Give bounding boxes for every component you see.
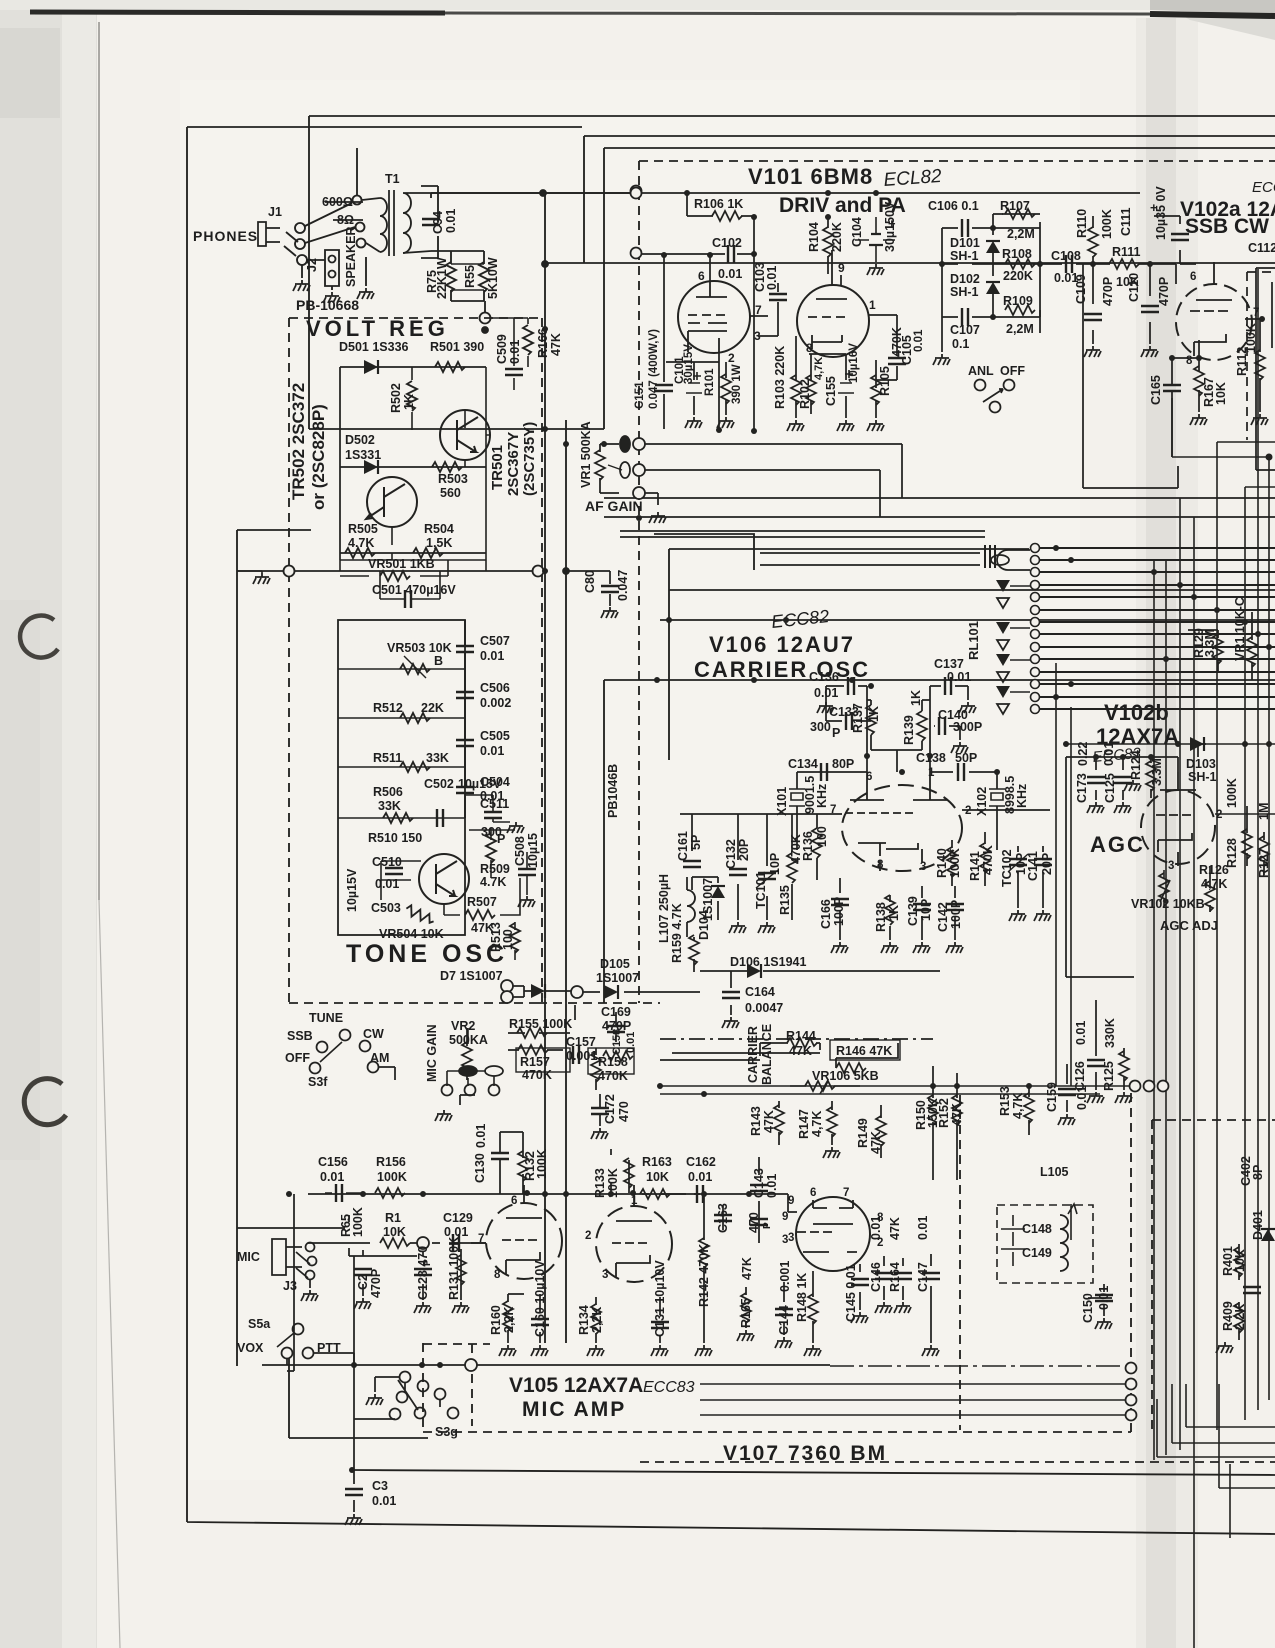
svg-text:470K: 470K [522, 1068, 552, 1082]
svg-text:R141: R141 [968, 851, 982, 881]
svg-text:VOX: VOX [237, 1341, 264, 1355]
svg-text:C161: C161 [676, 831, 690, 861]
svg-text:6: 6 [866, 771, 872, 783]
svg-text:C502: C502 [424, 777, 454, 791]
svg-text:C172: C172 [603, 1094, 617, 1124]
svg-text:R503: R503 [438, 472, 468, 486]
svg-text:VOLT REG: VOLT REG [306, 316, 449, 341]
svg-text:P: P [422, 1259, 433, 1266]
svg-text:R106 1K: R106 1K [694, 197, 743, 211]
svg-text:220K: 220K [1003, 269, 1033, 283]
svg-text:600Ω: 600Ω [322, 195, 353, 209]
svg-text:100K: 100K [948, 848, 962, 878]
svg-text:C143: C143 [752, 1168, 766, 1198]
svg-text:C106 0.1: C106 0.1 [928, 199, 979, 213]
svg-text:R165: R165 [739, 1298, 753, 1328]
svg-text:D104: D104 [697, 910, 711, 940]
svg-text:C162: C162 [686, 1155, 716, 1169]
svg-text:ANL: ANL [968, 364, 994, 378]
svg-text:1K: 1K [887, 905, 901, 921]
svg-text:1K: 1K [867, 706, 881, 722]
svg-text:7: 7 [755, 303, 762, 317]
svg-text:47K: 47K [740, 1257, 754, 1280]
svg-text:V106 12AU7: V106 12AU7 [709, 632, 855, 657]
svg-text:2,2K: 2,2K [502, 1307, 516, 1333]
svg-text:C108: C108 [1051, 249, 1081, 263]
svg-text:R128: R128 [1225, 838, 1239, 868]
svg-text:MIC GAIN: MIC GAIN [425, 1024, 439, 1082]
svg-text:390 1W: 390 1W [731, 364, 743, 404]
svg-text:1S331: 1S331 [345, 448, 381, 462]
svg-text:2.2K: 2.2K [1233, 1304, 1247, 1330]
svg-text:560: 560 [440, 486, 461, 500]
svg-text:6: 6 [1190, 271, 1196, 283]
svg-text:or (2SC828P): or (2SC828P) [309, 404, 328, 510]
svg-text:OFF: OFF [285, 1051, 310, 1065]
svg-text:SH-1: SH-1 [1188, 770, 1217, 784]
svg-text:R101: R101 [704, 368, 716, 396]
svg-text:R138: R138 [874, 902, 888, 932]
svg-text:R143: R143 [749, 1106, 763, 1136]
svg-text:10µ15: 10µ15 [526, 833, 540, 868]
svg-text:+: + [888, 216, 896, 231]
svg-text:10K: 10K [383, 1225, 406, 1239]
svg-text:C163: C163 [716, 1203, 730, 1233]
svg-text:3.3M: 3.3M [1203, 629, 1217, 657]
svg-text:47K: 47K [888, 1217, 902, 1240]
svg-text:5P: 5P [689, 835, 703, 850]
svg-text:0.01: 0.01 [913, 329, 925, 352]
svg-text:10µ15V: 10µ15V [345, 868, 359, 912]
svg-text:2: 2 [728, 351, 735, 365]
svg-text:C173: C173 [1075, 773, 1089, 803]
svg-text:2: 2 [965, 805, 971, 817]
svg-text:20P: 20P [737, 839, 751, 861]
svg-text:S3f: S3f [308, 1075, 328, 1089]
svg-text:3.3M: 3.3M [1150, 758, 1164, 786]
svg-text:8: 8 [1186, 355, 1193, 367]
svg-text:3: 3 [1168, 860, 1174, 872]
svg-text:8: 8 [494, 1269, 501, 1281]
svg-text:C107: C107 [950, 323, 980, 337]
svg-text:10µ16V: 10µ16V [848, 343, 860, 383]
svg-text:R507: R507 [467, 895, 497, 909]
svg-text:0.01: 0.01 [688, 1170, 712, 1184]
svg-text:C511: C511 [480, 797, 509, 811]
svg-text:9: 9 [782, 1211, 788, 1223]
svg-text:V102b: V102b [1104, 700, 1169, 725]
svg-text:4,7K: 4,7K [1011, 1093, 1025, 1119]
svg-text:SSB: SSB [287, 1029, 313, 1043]
svg-text:R164: R164 [888, 1262, 902, 1292]
svg-text:R127: R127 [1257, 848, 1271, 878]
svg-text:R107: R107 [1000, 199, 1030, 213]
svg-text:C510: C510 [372, 855, 402, 869]
svg-text:30µ15V: 30µ15V [683, 344, 695, 384]
svg-text:R1: R1 [385, 1211, 401, 1225]
svg-text:R131 100K: R131 100K [447, 1237, 461, 1300]
svg-text:C505: C505 [480, 729, 510, 743]
svg-text:20P: 20P [1040, 853, 1054, 875]
svg-text:J1: J1 [268, 205, 282, 219]
svg-text:R109: R109 [1003, 294, 1033, 308]
svg-text:47K: 47K [789, 1044, 812, 1058]
svg-text:T1: T1 [385, 172, 400, 186]
svg-text:J2: J2 [305, 258, 319, 272]
svg-text:R147: R147 [797, 1109, 811, 1139]
svg-text:R152: R152 [937, 1098, 951, 1128]
svg-text:R55: R55 [463, 265, 477, 288]
svg-text:470K: 470K [598, 1069, 628, 1083]
svg-text:2,2M: 2,2M [1006, 322, 1034, 336]
svg-text:C112: C112 [1248, 241, 1275, 255]
svg-text:R102: R102 [798, 379, 812, 409]
svg-text:0.01: 0.01 [480, 744, 504, 758]
svg-text:SSB CW D: SSB CW D [1185, 215, 1275, 238]
svg-text:R111: R111 [1112, 245, 1141, 259]
svg-text:1M: 1M [1257, 803, 1271, 820]
svg-text:0.01: 0.01 [916, 1216, 930, 1240]
svg-text:+: + [1150, 200, 1158, 215]
svg-text:0.01: 0.01 [625, 1032, 637, 1053]
svg-text:C507: C507 [480, 634, 510, 648]
svg-text:SH-1: SH-1 [950, 249, 979, 263]
svg-text:6: 6 [810, 1187, 816, 1199]
svg-text:C136: C136 [809, 670, 839, 684]
svg-text:R134: R134 [577, 1305, 591, 1335]
svg-text:470: 470 [617, 1101, 631, 1122]
svg-text:X102: X102 [975, 787, 989, 816]
svg-text:1S1007: 1S1007 [596, 971, 639, 985]
svg-text:R510 150: R510 150 [368, 831, 422, 845]
svg-text:C160 10µ10V: C160 10µ10V [533, 1260, 547, 1337]
svg-text:C508: C508 [513, 836, 527, 866]
svg-text:0.002: 0.002 [480, 696, 511, 710]
svg-text:D106 1S1941: D106 1S1941 [730, 955, 807, 969]
svg-text:S3g: S3g [435, 1425, 458, 1439]
svg-text:0.01: 0.01 [1102, 742, 1116, 766]
svg-text:2: 2 [585, 1230, 591, 1242]
svg-text:VR1 500KA: VR1 500KA [579, 421, 593, 488]
svg-text:TC102: TC102 [1000, 849, 1014, 887]
svg-text:R105: R105 [878, 366, 892, 396]
svg-text:0.001: 0.001 [778, 1261, 792, 1292]
svg-text:470P: 470P [1157, 277, 1171, 306]
svg-text:AF GAIN: AF GAIN [585, 498, 643, 514]
svg-text:C128 470: C128 470 [416, 1246, 430, 1300]
svg-text:8: 8 [877, 859, 884, 871]
svg-text:C164: C164 [745, 985, 775, 999]
svg-text:C504: C504 [480, 775, 510, 789]
svg-text:7: 7 [830, 804, 836, 816]
svg-text:R504: R504 [424, 522, 454, 536]
svg-text:330K: 330K [1103, 1018, 1117, 1048]
svg-text:C141: C141 [1026, 851, 1040, 881]
svg-text:0.047 (400W,V): 0.047 (400W,V) [648, 329, 660, 409]
svg-text:3: 3 [920, 861, 926, 873]
svg-text:R509: R509 [480, 862, 510, 876]
svg-text:R140: R140 [935, 848, 949, 878]
svg-text:8P: 8P [1251, 1165, 1265, 1180]
svg-text:0.0047: 0.0047 [745, 1001, 783, 1015]
svg-text:C137: C137 [934, 657, 964, 671]
svg-text:C139: C139 [906, 896, 920, 926]
svg-text:P: P [762, 1222, 773, 1229]
svg-text:D102: D102 [950, 272, 980, 286]
svg-text:MIC AMP: MIC AMP [522, 1398, 626, 1421]
svg-text:4.7K: 4.7K [348, 536, 374, 550]
svg-text:C146: C146 [869, 1262, 883, 1292]
svg-text:VR2: VR2 [451, 1019, 475, 1033]
svg-text:D7 1S1007: D7 1S1007 [440, 969, 503, 983]
svg-text:C104: C104 [850, 217, 864, 247]
svg-text:R103 220K: R103 220K [773, 346, 787, 409]
svg-text:C109: C109 [1074, 274, 1088, 304]
svg-text:D103: D103 [1186, 757, 1216, 771]
svg-text:VR501 1KB: VR501 1KB [368, 557, 435, 571]
svg-text:BALANCE: BALANCE [760, 1024, 774, 1085]
svg-text:33K: 33K [426, 751, 449, 765]
svg-text:9: 9 [838, 261, 845, 275]
svg-text:C501 470µ16V: C501 470µ16V [372, 583, 456, 597]
svg-text:220K: 220K [830, 222, 844, 252]
svg-text:1K: 1K [402, 394, 416, 410]
svg-text:V101 6BM8: V101 6BM8 [748, 164, 873, 189]
svg-text:300P: 300P [953, 720, 982, 734]
svg-text:C2: C2 [356, 1274, 370, 1290]
svg-text:ECL82: ECL82 [883, 166, 943, 191]
svg-text:C105: C105 [900, 335, 914, 365]
svg-text:ECC: ECC [1252, 179, 1275, 196]
svg-text:4,7K: 4,7K [810, 1111, 824, 1137]
svg-text:CARRIER: CARRIER [746, 1026, 760, 1083]
svg-text:2,2K: 2,2K [590, 1307, 604, 1333]
svg-text:P: P [832, 726, 840, 740]
svg-text:KHz: KHz [1015, 784, 1029, 808]
svg-text:RL101: RL101 [966, 621, 981, 660]
svg-text:B: B [434, 654, 443, 668]
svg-text:C147: C147 [916, 1262, 930, 1292]
svg-text:1: 1 [869, 298, 876, 312]
svg-text:AGC ADJ: AGC ADJ [1160, 918, 1218, 933]
svg-text:R163: R163 [642, 1155, 672, 1169]
svg-text:D105: D105 [600, 957, 630, 971]
svg-text:47K: 47K [869, 1131, 883, 1154]
svg-text:VR504 10K: VR504 10K [379, 927, 444, 941]
svg-text:D401: D401 [1251, 1210, 1265, 1240]
svg-text:C125: C125 [1103, 773, 1117, 803]
svg-text:C129: C129 [443, 1211, 473, 1225]
svg-text:8: 8 [877, 1212, 884, 1224]
svg-text:R502: R502 [389, 383, 403, 413]
svg-text:C509: C509 [495, 334, 509, 364]
svg-text:7: 7 [843, 1187, 849, 1199]
svg-text:R501 390: R501 390 [430, 340, 484, 354]
svg-text:0.001: 0.001 [566, 1049, 597, 1063]
svg-text:100K: 100K [377, 1170, 407, 1184]
svg-text:ECC83: ECC83 [643, 1379, 695, 1396]
svg-text:0.01: 0.01 [508, 340, 522, 364]
svg-text:R136: R136 [801, 831, 815, 861]
svg-text:C503: C503 [371, 901, 401, 915]
svg-text:4.7K: 4.7K [480, 875, 506, 889]
svg-text:SPEAKER: SPEAKER [344, 227, 358, 287]
svg-text:470K: 470K [981, 845, 995, 875]
svg-text:C3: C3 [372, 1479, 388, 1493]
svg-text:0.01: 0.01 [1074, 1021, 1088, 1045]
svg-text:CW: CW [363, 1027, 384, 1041]
svg-text:3: 3 [754, 329, 761, 343]
svg-text:TUNE: TUNE [309, 1011, 343, 1025]
svg-text:8Ω: 8Ω [337, 213, 354, 227]
svg-text:L107 250µH: L107 250µH [657, 874, 671, 943]
svg-text:SH-1: SH-1 [950, 285, 979, 299]
svg-text:C134: C134 [788, 757, 818, 771]
svg-text:100P: 100P [832, 897, 846, 926]
svg-text:100K: 100K [535, 1149, 549, 1179]
svg-text:V105 12AX7A: V105 12AX7A [509, 1374, 643, 1397]
svg-text:P: P [497, 832, 505, 846]
svg-text:0.01: 0.01 [814, 686, 838, 700]
svg-text:80P: 80P [832, 757, 854, 771]
svg-text:100: 100 [815, 826, 829, 847]
svg-text:R153: R153 [998, 1086, 1012, 1116]
svg-text:7: 7 [478, 1233, 484, 1245]
svg-text:R142 470K: R142 470K [697, 1244, 711, 1307]
svg-text:OFF: OFF [1000, 364, 1025, 378]
svg-text:300: 300 [810, 720, 831, 734]
svg-text:VR503 10K: VR503 10K [387, 641, 452, 655]
svg-text:3: 3 [788, 1232, 794, 1244]
svg-text:100K: 100K [1100, 209, 1114, 239]
svg-text:0.01: 0.01 [320, 1170, 344, 1184]
svg-text:C142: C142 [936, 902, 950, 932]
svg-text:R159 4.7K: R159 4.7K [670, 903, 684, 963]
svg-text:22K1W: 22K1W [435, 257, 449, 299]
svg-text:C166: C166 [819, 899, 833, 929]
svg-text:C158: C158 [611, 1029, 623, 1055]
svg-text:AM: AM [370, 1051, 389, 1065]
svg-text:C131 10µ10V: C131 10µ10V [653, 1260, 667, 1337]
svg-text:3: 3 [782, 1234, 788, 1246]
svg-text:0.01: 0.01 [474, 1124, 488, 1148]
svg-text:C150: C150 [1081, 1293, 1095, 1323]
svg-text:4,7K: 4,7K [1201, 877, 1227, 891]
svg-text:C148: C148 [1022, 1222, 1052, 1236]
svg-text:C155: C155 [824, 376, 838, 406]
svg-text:470P: 470P [369, 1269, 383, 1298]
svg-text:R156: R156 [376, 1155, 406, 1169]
svg-text:22K: 22K [421, 701, 444, 715]
svg-text:47K: 47K [549, 333, 563, 356]
svg-text:PTT: PTT [317, 1341, 341, 1355]
svg-text:C130: C130 [473, 1153, 487, 1183]
svg-text:0.01: 0.01 [1097, 1286, 1111, 1310]
svg-text:S5a: S5a [248, 1317, 271, 1331]
svg-text:10K: 10K [1214, 382, 1228, 405]
svg-text:100: 100 [501, 929, 515, 950]
svg-text:PB1046B: PB1046B [606, 764, 620, 818]
svg-text:R505: R505 [348, 522, 378, 536]
svg-text:VR102 10KB: VR102 10KB [1131, 897, 1205, 911]
svg-text:0.047: 0.047 [616, 570, 630, 601]
svg-text:470: 470 [747, 1212, 761, 1233]
svg-text:C165: C165 [1149, 375, 1163, 405]
svg-text:C144: C144 [777, 1305, 791, 1335]
svg-text:10P: 10P [919, 899, 933, 921]
svg-text:C111: C111 [1119, 207, 1133, 236]
svg-text:R158: R158 [598, 1055, 628, 1069]
svg-text:47K: 47K [762, 1110, 776, 1133]
svg-text:L105: L105 [1040, 1165, 1069, 1179]
svg-text:R104: R104 [807, 222, 821, 252]
svg-text:100K: 100K [1244, 323, 1258, 353]
svg-text:C157: C157 [566, 1035, 596, 1049]
svg-text:0.01: 0.01 [765, 1174, 779, 1198]
svg-text:C132: C132 [724, 839, 738, 869]
svg-text:2: 2 [1216, 809, 1222, 821]
svg-text:TR502 2SC372: TR502 2SC372 [289, 383, 308, 500]
svg-text:10K: 10K [646, 1170, 669, 1184]
svg-text:1,5K: 1,5K [426, 536, 452, 550]
svg-text:R139: R139 [902, 715, 916, 745]
svg-text:AGC: AGC [1090, 832, 1145, 857]
svg-text:47K: 47K [950, 1103, 964, 1126]
svg-text:VR106 5KB: VR106 5KB [812, 1069, 879, 1083]
svg-text:R133: R133 [593, 1168, 607, 1198]
svg-text:2SC367Y: 2SC367Y [505, 432, 522, 496]
svg-text:TR501: TR501 [489, 445, 506, 490]
svg-text:MIC: MIC [237, 1250, 260, 1264]
svg-text:C94: C94 [431, 211, 445, 234]
svg-text:33K: 33K [378, 799, 401, 813]
svg-text:0.01: 0.01 [718, 267, 742, 281]
svg-text:500KA: 500KA [449, 1033, 488, 1047]
svg-text:R108: R108 [1002, 247, 1032, 261]
svg-text:0.01: 0.01 [375, 877, 399, 891]
svg-text:V107 7360 BM: V107 7360 BM [723, 1442, 887, 1465]
svg-text:CARRIER OSC: CARRIER OSC [694, 657, 870, 682]
svg-text:5K10W: 5K10W [486, 257, 500, 299]
svg-text:6: 6 [511, 1195, 517, 1207]
svg-text:D502: D502 [345, 433, 375, 447]
svg-text:7: 7 [1253, 307, 1259, 319]
svg-text:8: 8 [806, 341, 813, 355]
svg-text:0.01: 0.01 [765, 266, 779, 290]
svg-text:0.22: 0.22 [1076, 742, 1090, 766]
svg-text:R148 1K: R148 1K [795, 1273, 809, 1322]
svg-text:0.01: 0.01 [444, 209, 458, 233]
svg-text:R124: R124 [1129, 750, 1143, 780]
svg-text:TONE OSC: TONE OSC [346, 940, 508, 968]
svg-text:100K: 100K [1225, 778, 1239, 808]
svg-text:470P: 470P [1101, 277, 1115, 306]
svg-text:C110: C110 [1127, 273, 1141, 302]
svg-text:1: 1 [928, 767, 935, 779]
svg-text:50P: 50P [955, 751, 977, 765]
svg-text:C169: C169 [601, 1005, 631, 1019]
svg-text:R135: R135 [778, 885, 792, 915]
svg-text:C151: C151 [634, 381, 646, 409]
svg-text:X101: X101 [775, 787, 789, 816]
svg-text:R166: R166 [536, 328, 550, 358]
svg-text:0.1: 0.1 [952, 337, 969, 351]
svg-text:R155 100K: R155 100K [509, 1017, 572, 1031]
svg-text:C80: C80 [583, 570, 597, 593]
svg-text:C156: C156 [318, 1155, 348, 1169]
svg-text:PB-10668: PB-10668 [296, 297, 359, 313]
svg-text:R160: R160 [489, 1305, 503, 1335]
